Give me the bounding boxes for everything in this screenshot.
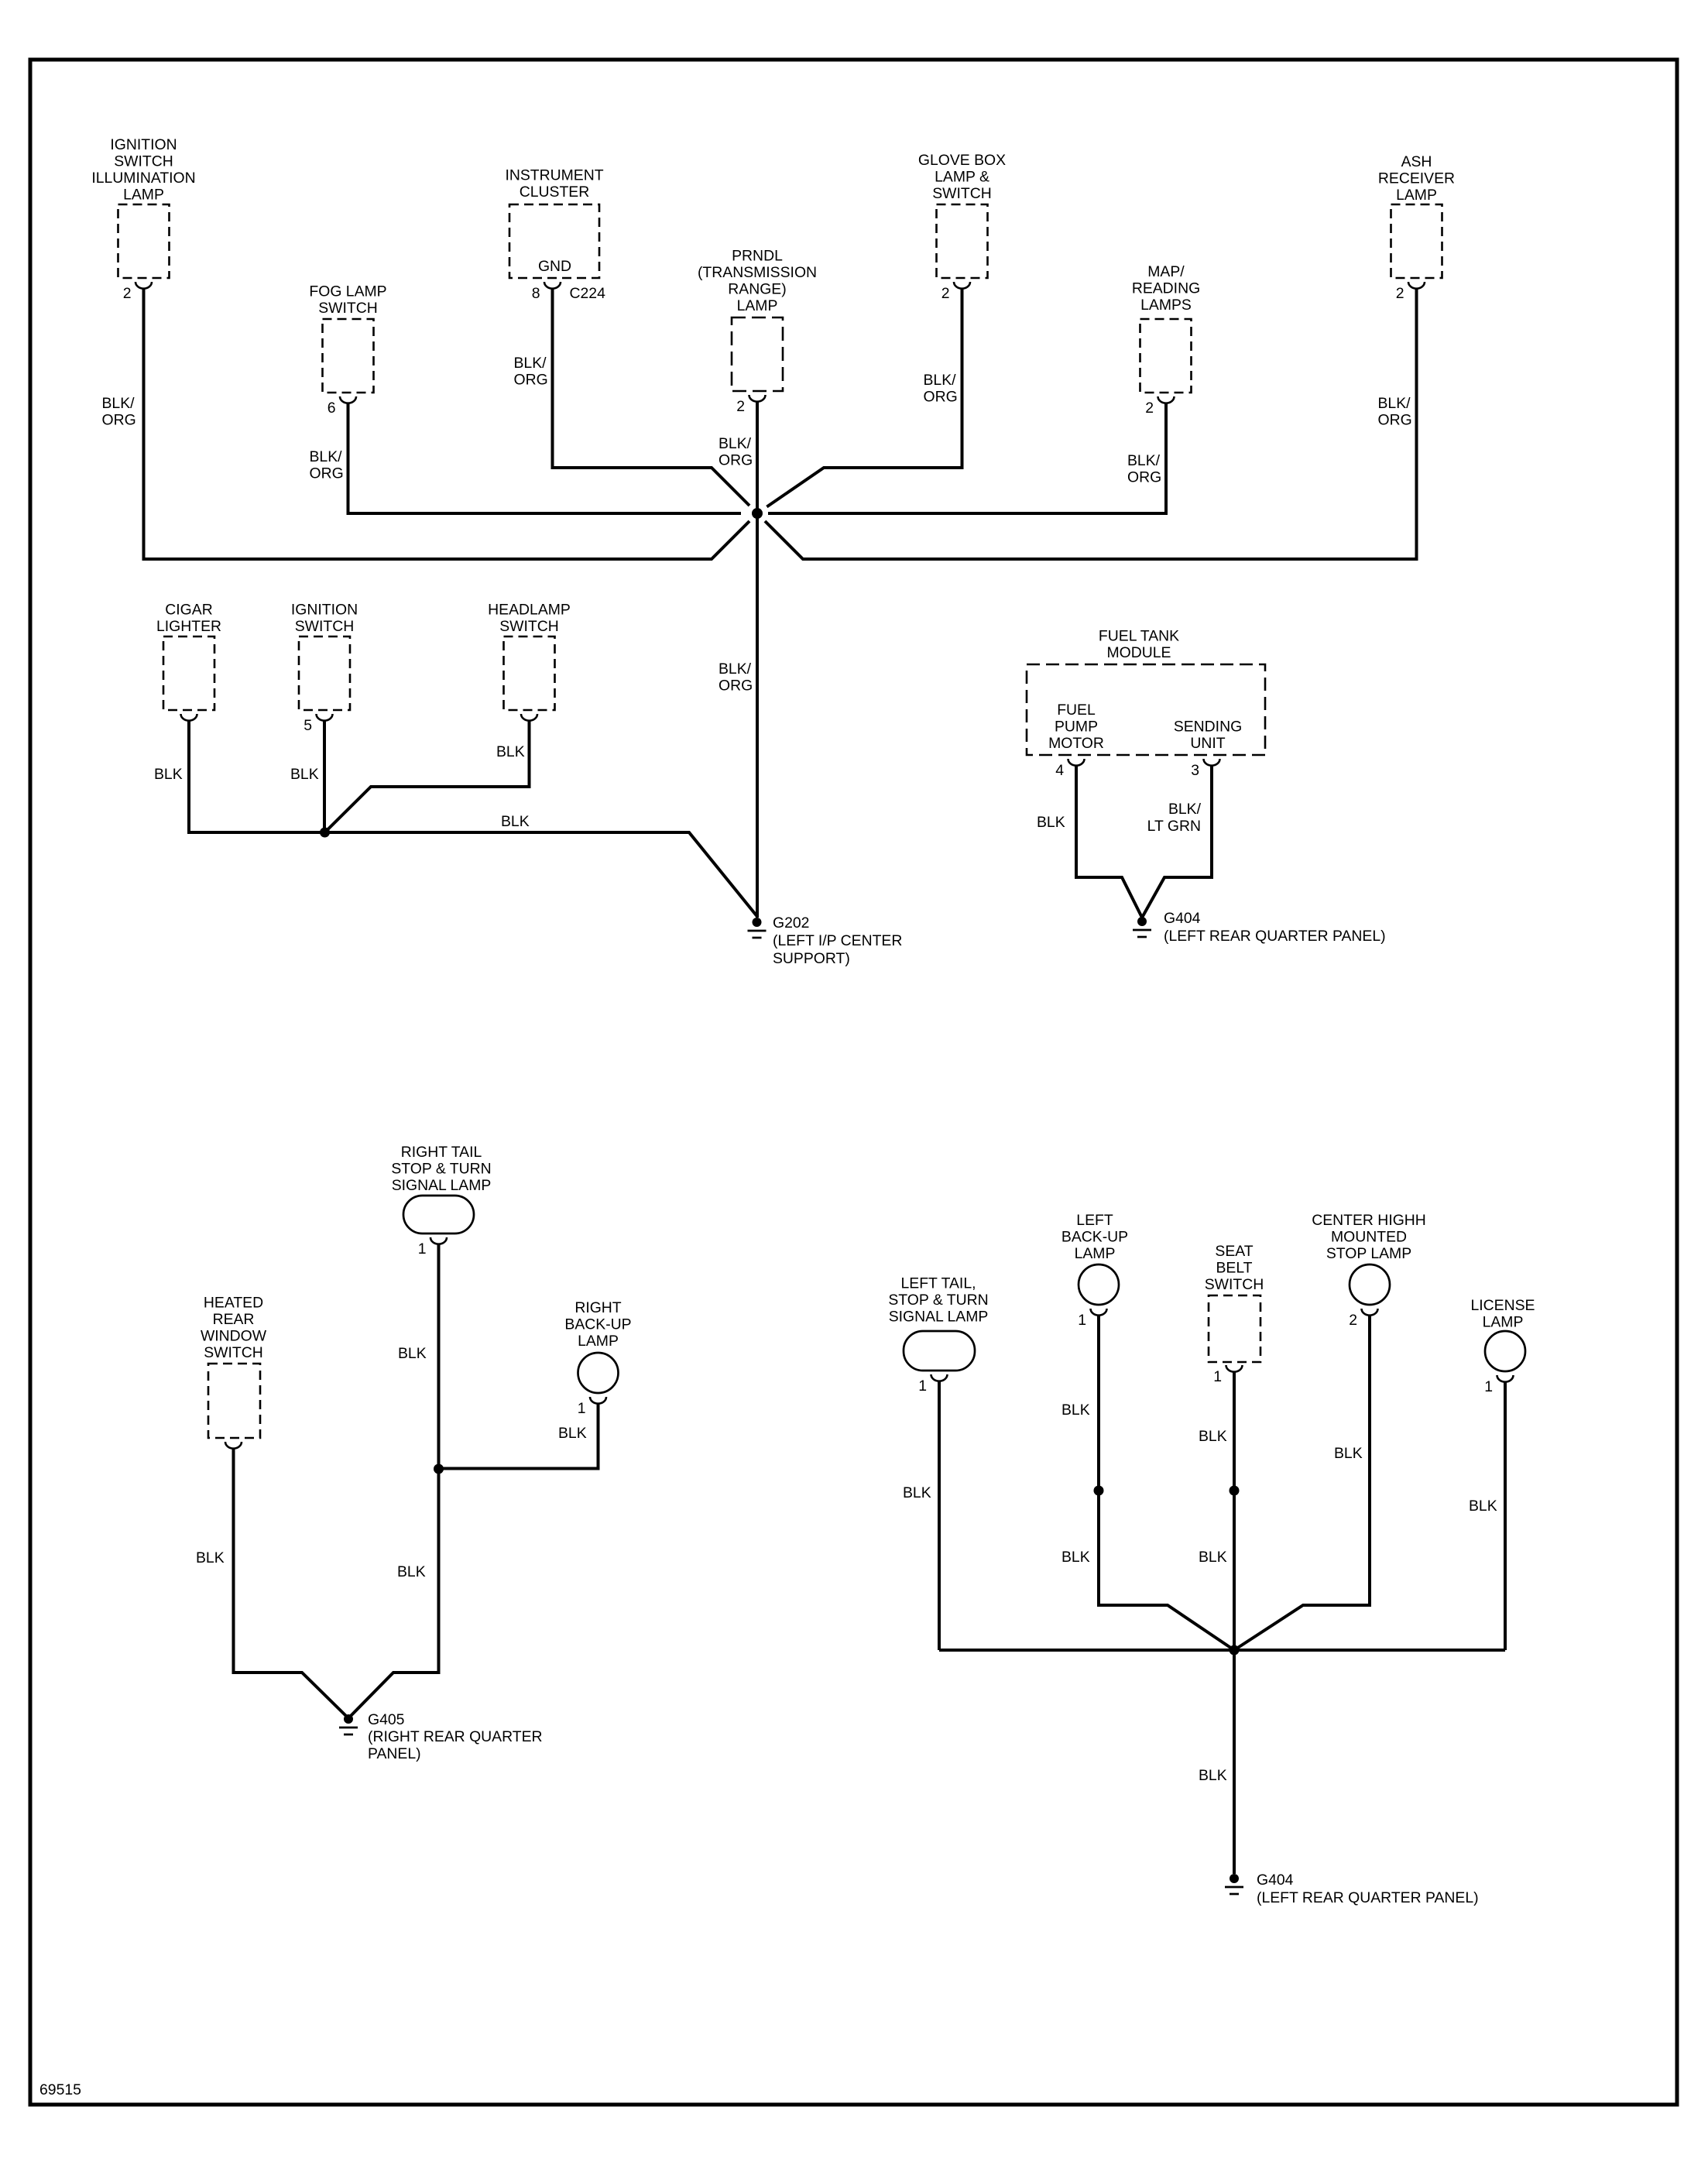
wire BLK/ORG from map/reading lamps to junction bbox=[768, 403, 1166, 513]
svg-text:LICENSE: LICENSE bbox=[1471, 1297, 1535, 1314]
wire BLK/ORG from instrument cluster to junction bbox=[553, 289, 750, 506]
svg-text:SWITCH: SWITCH bbox=[204, 1344, 262, 1361]
svg-text:LAMP: LAMP bbox=[578, 1333, 619, 1350]
svg-text:BLK: BLK bbox=[1334, 1445, 1363, 1462]
svg-text:BLK: BLK bbox=[1061, 1549, 1090, 1566]
svg-text:BLK/: BLK/ bbox=[514, 355, 547, 372]
node: BLK splice junction (left rear) bbox=[1230, 1645, 1240, 1655]
svg-text:LAMP: LAMP bbox=[737, 297, 778, 314]
pin 3 (sending unit) bbox=[1191, 762, 1199, 779]
svg-text:LEFT: LEFT bbox=[1076, 1212, 1113, 1229]
svg-text:HEADLAMP: HEADLAMP bbox=[488, 602, 571, 619]
wire BLK from cigar lighter bbox=[189, 721, 325, 832]
wire BLK from fuel pump motor to ground G404 bbox=[1076, 766, 1142, 918]
wire BLK/LT GRN from sending unit to ground G404 bbox=[1142, 766, 1212, 918]
wire BLK from center highh mounted stop lamp to junction bbox=[1234, 1316, 1370, 1650]
svg-text:BACK-UP: BACK-UP bbox=[1061, 1229, 1128, 1246]
svg-text:1: 1 bbox=[418, 1240, 427, 1257]
svg-text:BLK: BLK bbox=[1037, 814, 1065, 831]
svg-text:(LEFT REAR QUARTER PANEL): (LEFT REAR QUARTER PANEL) bbox=[1164, 928, 1386, 945]
svg-text:1: 1 bbox=[918, 1378, 927, 1395]
svg-text:8: 8 bbox=[532, 285, 540, 302]
svg-text:BLK: BLK bbox=[154, 766, 183, 783]
svg-text:BELT: BELT bbox=[1216, 1260, 1252, 1277]
svg-text:BLK: BLK bbox=[558, 1425, 587, 1442]
svg-text:SUPPORT): SUPPORT) bbox=[773, 950, 850, 967]
svg-text:BLK/: BLK/ bbox=[1168, 801, 1202, 818]
connector: instrument cluster (GND pin) bbox=[505, 167, 603, 289]
label G202 (LEFT I/P CENTER SUPPORT) bbox=[773, 914, 902, 967]
svg-text:BLK: BLK bbox=[1199, 1428, 1227, 1445]
svg-text:LAMP: LAMP bbox=[1075, 1245, 1116, 1262]
svg-text:STOP LAMP: STOP LAMP bbox=[1326, 1245, 1411, 1262]
wire BLK from heated rear window switch to ground G405 bbox=[234, 1449, 349, 1718]
svg-text:LAMP: LAMP bbox=[1396, 187, 1437, 204]
svg-text:2: 2 bbox=[1396, 285, 1404, 302]
pin 1 (license lamp) bbox=[1484, 1378, 1493, 1395]
node: splice on left back-up wire bbox=[1094, 1486, 1104, 1496]
svg-text:SIGNAL LAMP: SIGNAL LAMP bbox=[889, 1309, 989, 1326]
label BLK/ORG bbox=[719, 660, 753, 695]
node: BLK splice junction bbox=[320, 828, 330, 838]
svg-text:GND: GND bbox=[538, 258, 571, 275]
svg-text:LAMP &: LAMP & bbox=[935, 169, 989, 186]
connector: ignition switch illumination lamp bbox=[91, 136, 195, 289]
wire BLK/ORG from fog lamp switch to junction bbox=[348, 403, 742, 513]
ground G404 (left rear quarter panel) bbox=[1225, 1874, 1243, 1894]
wire BLK from license lamp to junction bbox=[1504, 1382, 1507, 1650]
pin 8 / connector C224 bbox=[532, 285, 605, 302]
connector: headlamp switch bbox=[488, 602, 571, 721]
label G404 (LEFT REAR QUARTER PANEL) bbox=[1164, 910, 1386, 945]
lamp: left back-up lamp bbox=[1061, 1212, 1128, 1316]
svg-text:LEFT TAIL,: LEFT TAIL, bbox=[901, 1275, 976, 1292]
svg-text:SWITCH: SWITCH bbox=[318, 300, 377, 317]
svg-text:BLK/: BLK/ bbox=[924, 372, 957, 389]
svg-text:ORG: ORG bbox=[514, 372, 548, 389]
svg-text:BLK: BLK bbox=[1199, 1549, 1227, 1566]
connector: map/reading lamps bbox=[1132, 263, 1200, 403]
svg-text:BLK: BLK bbox=[1061, 1402, 1090, 1419]
pin 5 (ignition switch) bbox=[304, 717, 312, 734]
wire BLK from seat belt switch to junction bbox=[1233, 1372, 1236, 1650]
label BLK/ORG bbox=[1378, 395, 1412, 429]
pin 2 (glove box lamp & switch) bbox=[941, 285, 950, 302]
svg-text:1: 1 bbox=[1484, 1378, 1493, 1395]
svg-text:1: 1 bbox=[1213, 1368, 1222, 1385]
label BLK bbox=[1199, 1428, 1227, 1445]
label BLK/ORG bbox=[102, 395, 136, 429]
lamp: right tail stop & turn signal lamp bbox=[391, 1144, 491, 1244]
connector: cigar lighter bbox=[156, 602, 221, 721]
svg-text:2: 2 bbox=[1145, 400, 1154, 417]
lamp: left tail, stop & turn signal lamp bbox=[888, 1275, 988, 1381]
pin 2 (ignition switch illumination lamp) bbox=[123, 285, 132, 302]
svg-text:IGNITION: IGNITION bbox=[110, 136, 177, 153]
svg-text:ORG: ORG bbox=[1378, 412, 1412, 429]
node: splice on seat belt wire bbox=[1230, 1486, 1240, 1496]
svg-text:BLK: BLK bbox=[290, 766, 319, 783]
svg-text:FUEL: FUEL bbox=[1057, 702, 1096, 719]
svg-text:BLK: BLK bbox=[496, 743, 525, 760]
pin 2 (ash receiver lamp) bbox=[1396, 285, 1404, 302]
svg-text:ORG: ORG bbox=[719, 452, 753, 469]
svg-text:BLK: BLK bbox=[1469, 1498, 1497, 1515]
svg-text:3: 3 bbox=[1191, 762, 1199, 779]
svg-text:BLK: BLK bbox=[1199, 1767, 1227, 1784]
svg-text:LIGHTER: LIGHTER bbox=[156, 618, 221, 635]
label BLK bbox=[1199, 1549, 1227, 1566]
svg-text:BLK: BLK bbox=[196, 1549, 225, 1566]
svg-text:ORG: ORG bbox=[310, 465, 344, 482]
svg-text:ORG: ORG bbox=[102, 412, 136, 429]
wire BLK/ORG from junction down to ground G202 bbox=[756, 513, 759, 918]
lamp: right back-up lamp bbox=[564, 1299, 631, 1404]
svg-text:MAP/: MAP/ bbox=[1147, 263, 1185, 280]
label BLK/ORG bbox=[514, 355, 548, 389]
node: BLK/ORG splice junction bbox=[752, 508, 763, 519]
svg-text:2: 2 bbox=[123, 285, 132, 302]
svg-text:PUMP: PUMP bbox=[1055, 719, 1098, 736]
wire: BLK bus joining rear lamps bbox=[939, 1649, 1505, 1652]
label BLK bbox=[1334, 1445, 1363, 1462]
svg-text:LAMPS: LAMPS bbox=[1140, 297, 1192, 314]
svg-text:INSTRUMENT: INSTRUMENT bbox=[505, 167, 603, 184]
svg-text:READING: READING bbox=[1132, 280, 1200, 297]
svg-text:LAMP: LAMP bbox=[1483, 1314, 1524, 1331]
svg-text:ASH: ASH bbox=[1401, 153, 1432, 170]
svg-text:G202: G202 bbox=[773, 914, 809, 932]
wire BLK/ORG from ash receiver lamp to junction bbox=[765, 289, 1417, 559]
svg-text:CIGAR: CIGAR bbox=[165, 602, 212, 619]
svg-text:SWITCH: SWITCH bbox=[114, 153, 173, 170]
label: diagram number 69515 bbox=[39, 2081, 81, 2098]
wire BLK from junction down to ground G404 bbox=[1233, 1650, 1236, 1874]
label G404 (LEFT REAR QUARTER PANEL) bbox=[1257, 1872, 1479, 1906]
pin 2 (PRNDL lamp) bbox=[736, 398, 745, 415]
svg-text:SEAT: SEAT bbox=[1215, 1243, 1253, 1260]
connector: seat belt switch bbox=[1205, 1243, 1264, 1372]
wire BLK from ignition switch bbox=[323, 721, 326, 832]
label BLK/ORG bbox=[310, 448, 344, 482]
pin 1 (right back-up lamp) bbox=[578, 1400, 586, 1417]
wire BLK from junction to ground G202 bbox=[325, 832, 757, 916]
svg-text:ILLUMINATION: ILLUMINATION bbox=[91, 170, 195, 187]
label BLK/ORG bbox=[719, 435, 753, 469]
label BLK/ORG bbox=[1127, 452, 1161, 486]
svg-text:6: 6 bbox=[328, 400, 336, 417]
pin 4 (fuel pump motor) bbox=[1055, 762, 1064, 779]
svg-text:BLK: BLK bbox=[903, 1484, 931, 1501]
svg-text:MODULE: MODULE bbox=[1107, 644, 1171, 661]
svg-text:G404: G404 bbox=[1164, 910, 1201, 927]
lamp: center highh mounted stop lamp bbox=[1312, 1212, 1426, 1316]
svg-text:1: 1 bbox=[1078, 1312, 1086, 1329]
label BLK bbox=[196, 1549, 225, 1566]
svg-text:(LEFT I/P CENTER: (LEFT I/P CENTER bbox=[773, 932, 902, 949]
label BLK/LT GRN bbox=[1147, 801, 1202, 835]
lamp: license lamp bbox=[1471, 1297, 1535, 1382]
svg-text:PRNDL: PRNDL bbox=[732, 248, 783, 265]
svg-text:SWITCH: SWITCH bbox=[295, 618, 354, 635]
svg-text:ORG: ORG bbox=[924, 389, 958, 406]
svg-text:G405: G405 bbox=[368, 1711, 404, 1728]
svg-text:4: 4 bbox=[1055, 762, 1064, 779]
label BLK bbox=[397, 1563, 426, 1580]
svg-text:SWITCH: SWITCH bbox=[1205, 1276, 1264, 1293]
wire BLK from right tail lamp to ground G405 bbox=[348, 1244, 439, 1718]
svg-text:BLK: BLK bbox=[398, 1345, 427, 1362]
svg-text:5: 5 bbox=[304, 717, 312, 734]
svg-text:WINDOW: WINDOW bbox=[201, 1328, 267, 1345]
label BLK bbox=[398, 1345, 427, 1362]
connector: heated rear window switch bbox=[201, 1295, 267, 1449]
svg-text:BLK/: BLK/ bbox=[1127, 452, 1161, 469]
svg-text:(TRANSMISSION: (TRANSMISSION bbox=[698, 264, 817, 281]
connector: ash receiver lamp bbox=[1378, 153, 1455, 289]
pin 6 (fog lamp switch) bbox=[328, 400, 336, 417]
svg-text:BACK-UP: BACK-UP bbox=[564, 1316, 631, 1333]
connector: fuel tank module bbox=[1027, 628, 1265, 766]
connector: fog lamp switch bbox=[309, 283, 386, 403]
label BLK bbox=[903, 1484, 931, 1501]
label BLK bbox=[154, 766, 183, 783]
svg-text:BLK: BLK bbox=[397, 1563, 426, 1580]
wire BLK/ORG from PRNDL lamp to junction bbox=[756, 402, 759, 513]
svg-text:BLK/: BLK/ bbox=[310, 448, 343, 465]
node: BLK splice junction (right rear) bbox=[434, 1464, 444, 1474]
svg-text:RANGE): RANGE) bbox=[728, 281, 786, 298]
svg-text:UNIT: UNIT bbox=[1190, 735, 1225, 752]
svg-text:G404: G404 bbox=[1257, 1872, 1294, 1889]
svg-text:2: 2 bbox=[941, 285, 950, 302]
pin 1 (right tail lamp) bbox=[418, 1240, 427, 1257]
svg-text:CENTER HIGHH: CENTER HIGHH bbox=[1312, 1212, 1426, 1229]
label BLK bbox=[1061, 1402, 1090, 1419]
connector: PRNDL (transmission range) lamp bbox=[698, 248, 817, 402]
svg-text:69515: 69515 bbox=[39, 2081, 81, 2098]
pin 1 (seat belt switch) bbox=[1213, 1368, 1222, 1385]
ground G202 bbox=[748, 918, 767, 938]
label BLK bbox=[1199, 1767, 1227, 1784]
label BLK bbox=[1469, 1498, 1497, 1515]
label BLK bbox=[1061, 1549, 1090, 1566]
connector: ignition switch bbox=[291, 602, 358, 721]
ground G405 bbox=[339, 1714, 358, 1734]
label BLK bbox=[496, 743, 525, 760]
svg-text:SWITCH: SWITCH bbox=[499, 618, 558, 635]
pin 1 (left back-up lamp) bbox=[1078, 1312, 1086, 1329]
svg-text:STOP & TURN: STOP & TURN bbox=[888, 1292, 988, 1309]
svg-text:ORG: ORG bbox=[719, 678, 753, 695]
pin 2 (center highh mounted stop lamp) bbox=[1349, 1312, 1357, 1329]
svg-text:GLOVE BOX: GLOVE BOX bbox=[918, 152, 1006, 169]
svg-text:(LEFT REAR QUARTER PANEL): (LEFT REAR QUARTER PANEL) bbox=[1257, 1889, 1479, 1906]
svg-text:ORG: ORG bbox=[1127, 469, 1161, 486]
svg-text:RECEIVER: RECEIVER bbox=[1378, 170, 1455, 187]
svg-text:BLK/: BLK/ bbox=[719, 660, 752, 678]
svg-text:MOTOR: MOTOR bbox=[1048, 735, 1104, 752]
svg-text:HEATED: HEATED bbox=[204, 1295, 263, 1312]
svg-text:MOUNTED: MOUNTED bbox=[1331, 1229, 1407, 1246]
svg-text:BLK/: BLK/ bbox=[1378, 395, 1411, 412]
wire BLK/ORG from glove box to junction bbox=[767, 289, 962, 507]
svg-text:C224: C224 bbox=[570, 285, 606, 302]
svg-text:1: 1 bbox=[578, 1400, 586, 1417]
svg-text:SIGNAL LAMP: SIGNAL LAMP bbox=[392, 1177, 492, 1194]
svg-text:FUEL TANK: FUEL TANK bbox=[1099, 628, 1179, 645]
ground G404 (fuel tank) bbox=[1133, 917, 1151, 937]
svg-text:REAR: REAR bbox=[213, 1311, 255, 1328]
svg-text:IGNITION: IGNITION bbox=[291, 602, 358, 619]
wire BLK from left tail lamp to junction bbox=[938, 1381, 941, 1650]
wire BLK from headlamp switch bbox=[325, 721, 530, 832]
svg-text:(RIGHT REAR QUARTER: (RIGHT REAR QUARTER bbox=[368, 1728, 543, 1745]
label BLK bbox=[290, 766, 319, 783]
pin 2 (map/reading lamps) bbox=[1145, 400, 1154, 417]
svg-text:BLK/: BLK/ bbox=[719, 435, 752, 452]
svg-text:SENDING: SENDING bbox=[1174, 719, 1242, 736]
svg-text:LAMP: LAMP bbox=[123, 187, 164, 204]
svg-text:SWITCH: SWITCH bbox=[932, 185, 991, 202]
label BLK bbox=[558, 1425, 587, 1442]
svg-text:RIGHT: RIGHT bbox=[574, 1299, 621, 1316]
svg-text:RIGHT TAIL: RIGHT TAIL bbox=[401, 1144, 482, 1161]
svg-text:2: 2 bbox=[736, 398, 745, 415]
wire BLK from right back-up lamp to junction bbox=[439, 1404, 598, 1469]
connector: glove box lamp & switch bbox=[918, 152, 1006, 289]
label BLK bbox=[1037, 814, 1065, 831]
pin 1 (left tail lamp) bbox=[918, 1378, 927, 1395]
label BLK bbox=[501, 813, 530, 830]
wire BLK from left back-up lamp to junction bbox=[1099, 1316, 1234, 1650]
svg-text:CLUSTER: CLUSTER bbox=[520, 184, 590, 201]
svg-text:BLK: BLK bbox=[501, 813, 530, 830]
wire BLK/ORG from ignition switch illumination lamp to junction bbox=[144, 289, 750, 559]
svg-text:STOP & TURN: STOP & TURN bbox=[391, 1161, 491, 1178]
svg-text:PANEL): PANEL) bbox=[368, 1745, 421, 1762]
svg-text:BLK/: BLK/ bbox=[102, 395, 135, 412]
label BLK/ORG bbox=[924, 372, 958, 406]
svg-text:2: 2 bbox=[1349, 1312, 1357, 1329]
label G405 (RIGHT REAR QUARTER PANEL) bbox=[368, 1711, 543, 1762]
svg-text:FOG LAMP: FOG LAMP bbox=[309, 283, 386, 300]
svg-text:LT GRN: LT GRN bbox=[1147, 818, 1201, 835]
